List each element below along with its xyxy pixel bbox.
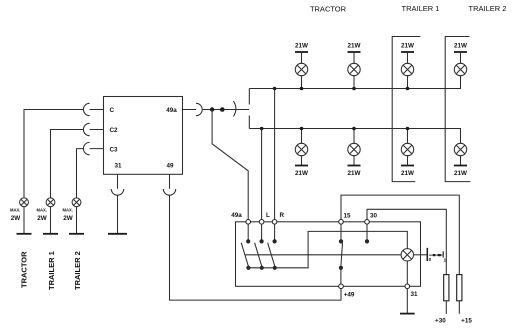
ground for H2 [43, 233, 58, 235]
turn/hazard switch S1 box [236, 222, 421, 286]
svg-text:21W: 21W [295, 43, 308, 50]
wire relay 49a output [183, 109, 250, 111]
wire relay 49 to switch +49 [170, 174, 342, 300]
terminal 31 of switch [405, 284, 410, 289]
svg-text:21W: 21W [295, 170, 308, 177]
svg-text:21W: 21W [454, 170, 467, 177]
svg-text:MAX.: MAX. [10, 207, 20, 212]
fuse F2 +15 [457, 275, 462, 301]
svg-text:R: R [280, 212, 285, 219]
wire switch arm link to pilot lamp [245, 254, 401, 256]
connector on wire C [83, 103, 89, 115]
svg-text:+15: +15 [461, 317, 472, 324]
connector on wire 49a [196, 103, 202, 115]
contact 15 lower [339, 266, 342, 269]
svg-text:31: 31 [115, 163, 123, 170]
svg-text:TRACTOR: TRACTOR [20, 251, 29, 288]
indicator lamp H3 trailer2 MAX 2W [62, 198, 80, 222]
svg-text:TRAILER 2: TRAILER 2 [469, 4, 507, 13]
connector on wire C2 [83, 123, 89, 135]
svg-text:2W: 2W [63, 215, 73, 222]
wire L terminal to contact [261, 224, 263, 240]
wire lamp H1 to ground [23, 207, 25, 234]
switch arm 3 [268, 243, 275, 267]
terminal 15 of switch [339, 220, 344, 225]
wire 30 terminal to contact [366, 224, 368, 240]
lamp H6 trailer1 right 21W [401, 43, 414, 91]
wire pilot lamp to terminal 31 [406, 261, 408, 284]
switch arm 1 [241, 243, 248, 267]
connector on wire C3 [83, 142, 89, 154]
svg-text:49a: 49a [166, 107, 177, 114]
svg-text:1: 1 [444, 258, 447, 263]
wire R terminal to contact [274, 224, 276, 240]
lamp H9 tractor left2 21W [348, 127, 361, 177]
lamp H7 trailer2 right 21W [454, 43, 467, 76]
node L on bottom bus [260, 127, 264, 131]
terminal 49a of switch [246, 220, 251, 225]
svg-text:+49: +49 [344, 292, 355, 299]
svg-text:15: 15 [344, 213, 352, 220]
wire R to switch [274, 89, 276, 220]
svg-text:49a: 49a [231, 212, 242, 219]
svg-text:TRAILER 1: TRAILER 1 [402, 4, 440, 13]
contact 49a lower [247, 266, 250, 269]
indicator lamp H2 trailer1 MAX 2W [36, 198, 54, 222]
terminal +49 of switch [339, 284, 344, 289]
pilot lamp in switch [401, 249, 413, 261]
switch arm 2 [255, 243, 262, 267]
svg-text:L: L [266, 212, 270, 219]
wire lower contacts to pilot lamp [248, 231, 407, 267]
node R on top bus [273, 87, 277, 91]
contact R upper [273, 240, 276, 243]
svg-text:C2: C2 [110, 127, 119, 134]
wire relay 31 to ground [117, 174, 119, 234]
top bus wire (R circuit) [249, 76, 460, 89]
svg-text:21W: 21W [454, 43, 467, 50]
wire pilot lamp to actuator [414, 254, 427, 256]
fuse F1 +30 [444, 275, 449, 301]
actuator bar position 0 [426, 248, 428, 261]
wire 31 to ground [406, 289, 408, 314]
bottom bus wire (L circuit) [249, 129, 460, 144]
connector on wire 49 [163, 189, 175, 195]
contact 30 upper [365, 240, 368, 243]
wire 15 feed to fuse [341, 195, 459, 274]
contact R lower [273, 266, 276, 269]
ground for switch 31 [400, 313, 415, 315]
svg-text:C3: C3 [110, 146, 119, 153]
svg-text:C: C [110, 107, 115, 114]
svg-text:21W: 21W [401, 170, 414, 177]
svg-text:21W: 21W [401, 43, 414, 50]
svg-text:TRACTOR: TRACTOR [310, 4, 347, 13]
wire 49a terminal to contact [247, 224, 249, 240]
wire 30 feed to fuse [367, 209, 446, 274]
svg-text:0: 0 [429, 257, 432, 262]
wire C from relay to tractor indicator [24, 110, 104, 198]
wire 15 lower contact to +49 [340, 270, 342, 285]
wire L to switch [261, 129, 263, 220]
contact 15 upper [339, 240, 342, 243]
lamp H10 trailer1 left 21W [401, 127, 414, 177]
svg-text:TRAILER 2: TRAILER 2 [73, 251, 82, 290]
svg-text:MAX.: MAX. [36, 207, 46, 212]
contact 49a upper [247, 240, 250, 243]
svg-text:MAX.: MAX. [62, 207, 72, 212]
svg-text:49: 49 [167, 163, 175, 170]
wire C2 from relay to trailer 1 indicator [51, 130, 104, 198]
actuator arrow [429, 254, 443, 256]
lamp H4 tractor right 21W [295, 43, 308, 91]
connector 2 on wire 49a [233, 101, 236, 117]
contact L upper [260, 240, 263, 243]
connector on wire 31 [111, 189, 123, 195]
svg-text:2W: 2W [11, 215, 21, 222]
ground for H3 [69, 233, 84, 235]
wire 15 terminal to contact [340, 224, 342, 240]
indicator lamp H1 tractor MAX 2W [10, 198, 28, 222]
terminal L of switch [259, 220, 264, 225]
wire C3 from relay to trailer 2 indicator [77, 149, 104, 198]
svg-text:TRAILER 1: TRAILER 1 [47, 251, 56, 290]
node 2 on 49a wire [220, 107, 225, 112]
flasher relay K1 box [104, 97, 183, 175]
trailer 1 boundary bracket [392, 37, 420, 182]
ground for H1 [17, 233, 32, 235]
lamp H11 trailer2 left 21W [454, 143, 467, 177]
lamp H8 tractor left 21W [295, 127, 308, 177]
terminal R of switch [272, 220, 277, 225]
svg-text:2W: 2W [37, 215, 47, 222]
svg-text:31: 31 [411, 291, 419, 298]
ground for relay 31 [108, 233, 127, 235]
contact L lower [260, 266, 263, 269]
actuator tick position 1 [442, 251, 444, 257]
terminal bracket at 49a feed [248, 89, 250, 129]
node on 49a wire [210, 107, 214, 111]
lamp H5 tractor right2 21W [348, 43, 361, 91]
wire lamp H2 to ground [50, 207, 52, 234]
trailer 2 boundary bracket [445, 37, 470, 182]
terminal 30 of switch [365, 220, 370, 225]
svg-text:30: 30 [370, 213, 378, 220]
wire 49a down to switch [212, 110, 248, 220]
svg-text:21W: 21W [348, 43, 361, 50]
wire lamp H3 to ground [76, 207, 78, 234]
svg-text:21W: 21W [348, 170, 361, 177]
switch arm 15 [341, 243, 343, 267]
svg-text:+30: +30 [435, 317, 446, 324]
